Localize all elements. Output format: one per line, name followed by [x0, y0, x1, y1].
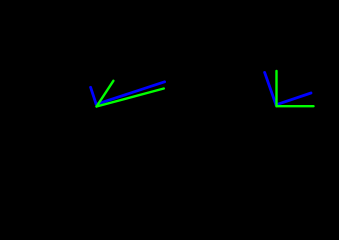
right frame: green horizontal axis: [277, 105, 314, 107]
right frame: green vertical axis: [275, 71, 277, 106]
left frame: blue long vector to the right: [96, 82, 164, 105]
right frame: blue vector up-left: [265, 72, 276, 104]
left frame: green steep vector up-right: [97, 81, 114, 107]
right frame: blue vector up-right: [276, 93, 311, 105]
left frame: green long vector to the right: [97, 89, 164, 107]
left frame: blue short vector up-left: [91, 87, 97, 104]
